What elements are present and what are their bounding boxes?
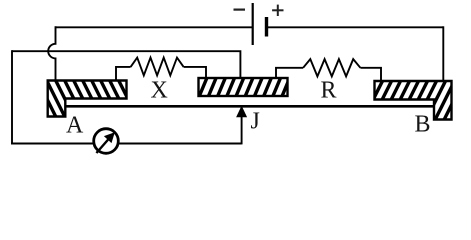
wire battery negative to top-left corner (56, 26, 253, 28)
resistor R right lead (360, 68, 381, 82)
resistor R left lead (276, 68, 303, 79)
wire left drop to terminal A strip with hop over galvanometer wire (48, 26, 55, 81)
svg-text:X: X (151, 78, 168, 104)
slide wire A-B (65, 105, 434, 108)
resistor X right lead (184, 67, 206, 79)
svg-text:R: R (321, 78, 337, 104)
svg-text:J: J (251, 109, 260, 135)
jockey arrowhead (236, 106, 247, 118)
wire battery positive to top-right corner (267, 26, 444, 28)
wire right drop to terminal B strip (442, 26, 444, 82)
copper strip middle junction (hatched) (180, 76, 300, 98)
resistor R zigzag (303, 59, 360, 76)
jockey stem wire (241, 117, 243, 144)
galvanometer needle (96, 138, 109, 153)
svg-text:B: B (415, 112, 431, 138)
wire bottom left to galvanometer (11, 143, 95, 145)
wire left vertical of galvanometer loop (11, 50, 13, 144)
battery B1 short plate (265, 17, 268, 37)
copper strip terminal A (L-shaped, hatched) (19, 79, 147, 119)
label minus sign (234, 9, 246, 11)
galvanometer G circle (94, 129, 119, 154)
battery B1 long plate (negative side label shown minus) (252, 3, 254, 45)
label plus sign (272, 5, 283, 16)
svg-text:A: A (66, 113, 84, 139)
resistor X left lead (116, 67, 131, 81)
wire galvanometer to jockey stem (117, 143, 242, 145)
resistor X zigzag (131, 58, 184, 76)
galvanometer needle arrowhead (104, 132, 115, 143)
wire galvanometer top run to strip junction (12, 51, 240, 79)
copper strip terminal B (L-shaped, hatched) (344, 79, 471, 122)
